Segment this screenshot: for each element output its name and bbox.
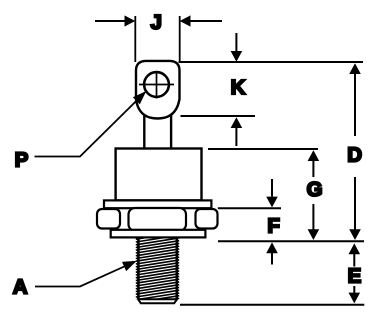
- dimension G: top arrow (up): [308, 150, 320, 177]
- svg-text:J: J: [150, 11, 161, 34]
- threaded stud A: shank edges: [138, 238, 176, 299]
- svg-text:E: E: [348, 264, 362, 287]
- dimension K: top arrow (down): [231, 33, 243, 62]
- dimension K: bottom arrow (up): [231, 117, 243, 146]
- hex nut (three facets): [97, 208, 218, 231]
- dimension K: bottom reference line (lug bottom level): [181, 115, 256, 117]
- threaded stud A: chamfered tip: [137, 299, 177, 303]
- dimension J: left arrow: [95, 15, 135, 26]
- dimension G: top reference line (body top level): [208, 148, 318, 150]
- dimension D: top arrow (up): [349, 63, 361, 136]
- callout A: leader line: [35, 261, 137, 287]
- dimension D: bottom arrow (down): [349, 177, 361, 240]
- svg-text:A: A: [13, 276, 28, 299]
- terminal lug: [136, 61, 180, 119]
- svg-text:G: G: [307, 178, 323, 201]
- top flange: [104, 200, 211, 208]
- dimension F: top reference line (nut top level): [218, 207, 281, 209]
- svg-text:P: P: [15, 149, 29, 172]
- dimension J: extension lines: [135, 16, 179, 62]
- svg-text:F: F: [267, 215, 280, 238]
- bottom washer: [111, 230, 206, 238]
- dimension E: bottom arrow (down): [349, 286, 361, 303]
- stud tip reference line: [180, 304, 364, 306]
- threaded stud A: threads: [136, 232, 179, 305]
- mounting hole P (circle with crosshair): [139, 71, 174, 99]
- callout P: leader line: [35, 91, 147, 157]
- ceramic body: [116, 149, 202, 201]
- dimension K: top reference line (lug top level): [179, 61, 364, 63]
- dimension F: bottom arrow (up): [266, 242, 278, 264]
- svg-text:D: D: [347, 144, 362, 167]
- svg-text:K: K: [231, 76, 246, 99]
- dimension J: right arrow: [180, 15, 222, 26]
- seating plane reference line: [218, 240, 364, 242]
- dimension F: top arrow (down): [266, 179, 278, 207]
- neck (terminal post sides): [144, 108, 171, 150]
- dimension G: bottom arrow (down): [308, 204, 320, 240]
- dimension E: top arrow (up): [349, 243, 361, 266]
